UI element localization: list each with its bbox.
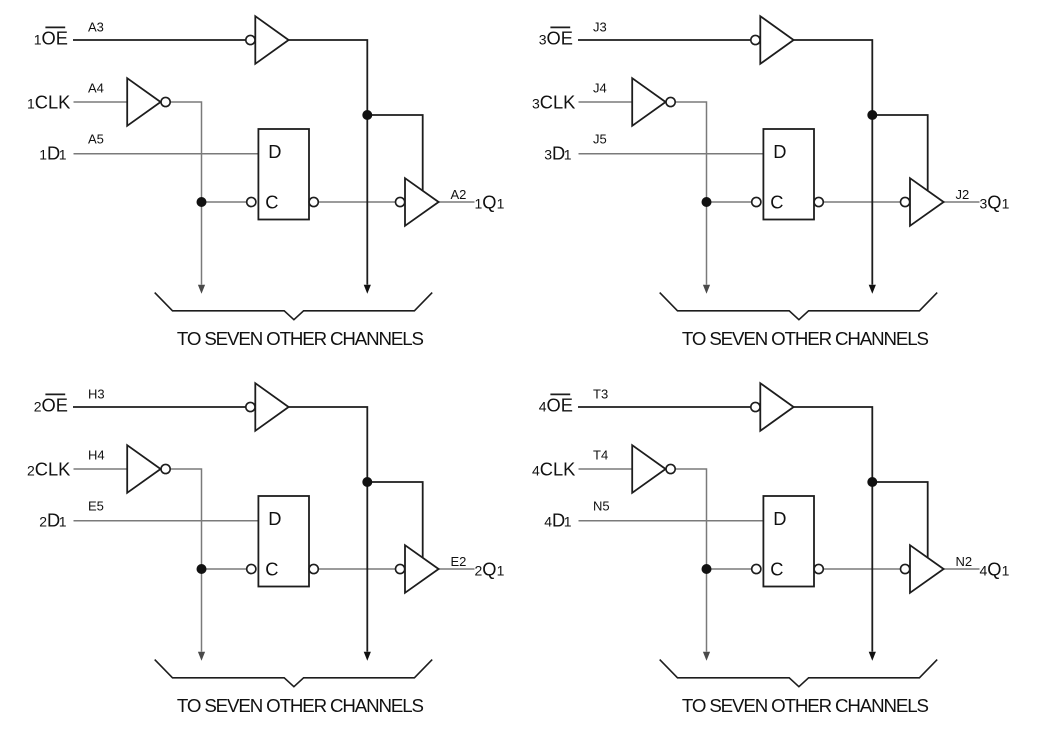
svg-text:CLK: CLK — [35, 459, 71, 480]
brace: to seven other channels (channel 3) — [660, 293, 938, 320]
svg-text:3: 3 — [532, 96, 540, 112]
wire: 4OE input to OE buffer — [578, 406, 751, 408]
svg-text:3: 3 — [544, 146, 552, 162]
svg-text:TO SEVEN OTHER CHANNELS: TO SEVEN OTHER CHANNELS — [177, 695, 424, 716]
svg-text:OE: OE — [42, 27, 68, 48]
bubble: CLK inverter output (channel 3) — [666, 97, 675, 106]
buffer U2a: OE input buffer (channel 2) — [255, 383, 288, 431]
svg-text:3: 3 — [980, 196, 988, 212]
wire: OE junction to buffer enable (channel 4) — [872, 482, 927, 558]
svg-text:A2: A2 — [451, 187, 467, 202]
wire: 1OE input to OE buffer — [73, 39, 246, 41]
wire: buffer output to 3Q1 terminal — [944, 201, 980, 203]
buffer U1d: 3-state output buffer (channel 1) — [405, 178, 439, 226]
wire: latch output to 3-state buffer input (channel 2) — [318, 568, 395, 570]
svg-text:D: D — [773, 141, 786, 162]
arrowhead: CLK net to other channels (channel 3) — [703, 285, 710, 294]
overline over OE of 3OE — [550, 26, 570, 28]
svg-text:D: D — [268, 141, 281, 162]
svg-text:1: 1 — [564, 513, 572, 529]
wire: latch output to 3-state buffer input (channel 1) — [318, 201, 395, 203]
svg-text:1: 1 — [1002, 563, 1010, 579]
svg-text:D: D — [773, 508, 786, 529]
svg-text:N2: N2 — [956, 554, 973, 569]
inverter U4b: CLK inverter (channel 4) — [632, 445, 665, 493]
svg-text:T3: T3 — [593, 387, 608, 402]
svg-text:2: 2 — [39, 513, 47, 529]
inverter U2b: CLK inverter (channel 2) — [127, 445, 160, 493]
svg-text:Q: Q — [482, 192, 496, 213]
svg-text:H3: H3 — [88, 387, 105, 402]
bubble: latch C input (channel 1) — [247, 197, 256, 206]
wire: OE junction to buffer enable (channel 2) — [367, 482, 422, 558]
bubble: inverting input of OE buffer (channel 4) — [751, 402, 760, 411]
wire: CLK junction to latch C input (channel 2) — [202, 568, 247, 570]
svg-text:J5: J5 — [593, 132, 607, 147]
svg-text:1: 1 — [564, 146, 572, 162]
bubble: CLK inverter output (channel 1) — [161, 97, 170, 106]
bubble: latch inverted output (channel 1) — [309, 197, 318, 206]
svg-text:C: C — [770, 192, 783, 213]
buffer U4a: OE input buffer (channel 4) — [760, 383, 793, 431]
inverter U3b: CLK inverter (channel 3) — [632, 78, 665, 126]
svg-text:OE: OE — [547, 394, 573, 415]
arrowhead: CLK net to other channels (channel 1) — [198, 285, 205, 294]
wire: CLK junction to latch C input (channel 4) — [707, 568, 752, 570]
buffer U4d: 3-state output buffer (channel 4) — [910, 545, 944, 593]
wire: 3D1 input to latch D pin — [579, 153, 764, 155]
wire: 3OE input to OE buffer — [578, 39, 751, 41]
svg-text:C: C — [770, 559, 783, 580]
bubble: inverting input of OE buffer (channel 1) — [246, 35, 255, 44]
arrowhead: CLK net to other channels (channel 4) — [703, 652, 710, 661]
svg-text:1: 1 — [1002, 196, 1010, 212]
buffer U3d: 3-state output buffer (channel 3) — [910, 178, 944, 226]
svg-text:OE: OE — [547, 27, 573, 48]
wire: inverter output right then down to CLK arrow (channel 3) — [675, 102, 706, 285]
svg-text:H4: H4 — [88, 448, 105, 463]
arrowhead: CLK net to other channels (channel 2) — [198, 652, 205, 661]
bubble: latch inverted output (channel 2) — [309, 564, 318, 573]
bubble: inverting input of OE buffer (channel 2) — [246, 402, 255, 411]
junction: OE net dot (channel 3) — [867, 110, 877, 120]
svg-text:4: 4 — [980, 563, 988, 579]
bubble: output buffer input (channel 4) — [901, 564, 910, 573]
svg-text:J3: J3 — [593, 20, 607, 35]
wire: CLK junction to latch C input (channel 1) — [202, 201, 247, 203]
buffer U3a: OE input buffer (channel 3) — [760, 16, 793, 64]
svg-text:1: 1 — [475, 196, 483, 212]
svg-text:1: 1 — [34, 31, 42, 47]
latch U1c: D latch box (channel 1) — [258, 129, 309, 220]
bubble: latch C input (channel 3) — [752, 197, 761, 206]
wire: 2D1 input to latch D pin — [74, 520, 259, 522]
brace: to seven other channels (channel 4) — [660, 660, 938, 687]
bubble: latch inverted output (channel 3) — [814, 197, 823, 206]
brace: to seven other channels (channel 1) — [155, 293, 433, 320]
svg-text:A4: A4 — [88, 81, 104, 96]
wire: CLK junction to latch C input (channel 3) — [707, 201, 752, 203]
overline over OE of 1OE — [45, 26, 65, 28]
svg-text:CLK: CLK — [540, 459, 576, 480]
overline over OE of 2OE — [45, 393, 65, 395]
junction: CLK net dot (channel 3) — [702, 197, 712, 207]
wire: 4D1 input to latch D pin — [579, 520, 764, 522]
bubble: output buffer input (channel 1) — [396, 197, 405, 206]
wire: OE buffer output right then down to OE arrow (channel 2) — [289, 407, 368, 652]
svg-text:TO SEVEN OTHER CHANNELS: TO SEVEN OTHER CHANNELS — [682, 328, 929, 349]
buffer U1a: OE input buffer (channel 1) — [255, 16, 288, 64]
wire: OE buffer output right then down to OE arrow (channel 1) — [289, 40, 368, 285]
latch U3c: D latch box (channel 3) — [763, 129, 814, 220]
svg-text:A5: A5 — [88, 132, 104, 147]
bubble: output buffer input (channel 2) — [396, 564, 405, 573]
svg-text:2: 2 — [27, 463, 35, 479]
wire: OE buffer output right then down to OE arrow (channel 3) — [794, 40, 873, 285]
wire: OE buffer output right then down to OE arrow (channel 4) — [794, 407, 873, 652]
svg-text:T4: T4 — [593, 448, 608, 463]
wire: inverter output right then down to CLK arrow (channel 1) — [170, 102, 201, 285]
wire: buffer output to 1Q1 terminal — [439, 201, 475, 203]
svg-text:Q: Q — [987, 192, 1001, 213]
latch U2c: D latch box (channel 2) — [258, 496, 309, 587]
svg-text:CLK: CLK — [540, 92, 576, 113]
svg-text:1: 1 — [497, 563, 505, 579]
svg-text:1: 1 — [497, 196, 505, 212]
svg-text:OE: OE — [42, 394, 68, 415]
wire: 3CLK input to inverter — [579, 101, 632, 103]
wire: latch output to 3-state buffer input (channel 4) — [823, 568, 900, 570]
wire: OE junction to buffer enable (channel 3) — [872, 115, 927, 191]
bubble: latch C input (channel 2) — [247, 564, 256, 573]
brace: to seven other channels (channel 2) — [155, 660, 433, 687]
svg-text:D: D — [268, 508, 281, 529]
svg-text:2: 2 — [475, 563, 483, 579]
wire: inverter output right then down to CLK arrow (channel 4) — [675, 469, 706, 652]
svg-text:J2: J2 — [956, 187, 970, 202]
wire: latch output to 3-state buffer input (channel 3) — [823, 201, 900, 203]
svg-text:1: 1 — [39, 146, 47, 162]
bubble: output buffer input (channel 3) — [901, 197, 910, 206]
wire: buffer output to 2Q1 terminal — [439, 568, 475, 570]
svg-text:C: C — [265, 559, 278, 580]
bubble: latch inverted output (channel 4) — [814, 564, 823, 573]
wire: 2CLK input to inverter — [74, 468, 127, 470]
svg-text:4: 4 — [539, 398, 547, 414]
arrowhead: OE net to other channels (channel 2) — [364, 652, 371, 661]
svg-text:J4: J4 — [593, 81, 607, 96]
svg-text:E5: E5 — [88, 499, 104, 514]
svg-text:N5: N5 — [593, 499, 610, 514]
junction: OE net dot (channel 1) — [362, 110, 372, 120]
junction: OE net dot (channel 4) — [867, 477, 877, 487]
svg-text:E2: E2 — [451, 554, 467, 569]
wire: 4CLK input to inverter — [579, 468, 632, 470]
wire: 1CLK input to inverter — [74, 101, 127, 103]
svg-text:TO SEVEN OTHER CHANNELS: TO SEVEN OTHER CHANNELS — [682, 695, 929, 716]
svg-text:1: 1 — [27, 96, 35, 112]
svg-text:1: 1 — [59, 513, 67, 529]
junction: CLK net dot (channel 1) — [197, 197, 207, 207]
svg-text:3: 3 — [539, 31, 547, 47]
overline over OE of 4OE — [550, 393, 570, 395]
bubble: latch C input (channel 4) — [752, 564, 761, 573]
wire: inverter output right then down to CLK arrow (channel 2) — [170, 469, 201, 652]
arrowhead: OE net to other channels (channel 4) — [869, 652, 876, 661]
bubble: inverting input of OE buffer (channel 3) — [751, 35, 760, 44]
svg-text:A3: A3 — [88, 20, 104, 35]
bubble: CLK inverter output (channel 4) — [666, 464, 675, 473]
arrowhead: OE net to other channels (channel 3) — [869, 285, 876, 294]
svg-text:CLK: CLK — [35, 92, 71, 113]
wire: 2OE input to OE buffer — [73, 406, 246, 408]
wire: 1D1 input to latch D pin — [74, 153, 259, 155]
svg-text:Q: Q — [482, 559, 496, 580]
buffer U2d: 3-state output buffer (channel 2) — [405, 545, 439, 593]
svg-text:C: C — [265, 192, 278, 213]
svg-text:2: 2 — [34, 398, 42, 414]
junction: CLK net dot (channel 4) — [702, 564, 712, 574]
junction: OE net dot (channel 2) — [362, 477, 372, 487]
bubble: CLK inverter output (channel 2) — [161, 464, 170, 473]
svg-text:1: 1 — [59, 146, 67, 162]
svg-text:4: 4 — [532, 463, 540, 479]
svg-text:Q: Q — [987, 559, 1001, 580]
junction: CLK net dot (channel 2) — [197, 564, 207, 574]
inverter U1b: CLK inverter (channel 1) — [127, 78, 160, 126]
svg-text:4: 4 — [544, 513, 552, 529]
wire: OE junction to buffer enable (channel 1) — [367, 115, 422, 191]
arrowhead: OE net to other channels (channel 1) — [364, 285, 371, 294]
latch U4c: D latch box (channel 4) — [763, 496, 814, 587]
wire: buffer output to 4Q1 terminal — [944, 568, 980, 570]
svg-text:TO SEVEN OTHER CHANNELS: TO SEVEN OTHER CHANNELS — [177, 328, 424, 349]
